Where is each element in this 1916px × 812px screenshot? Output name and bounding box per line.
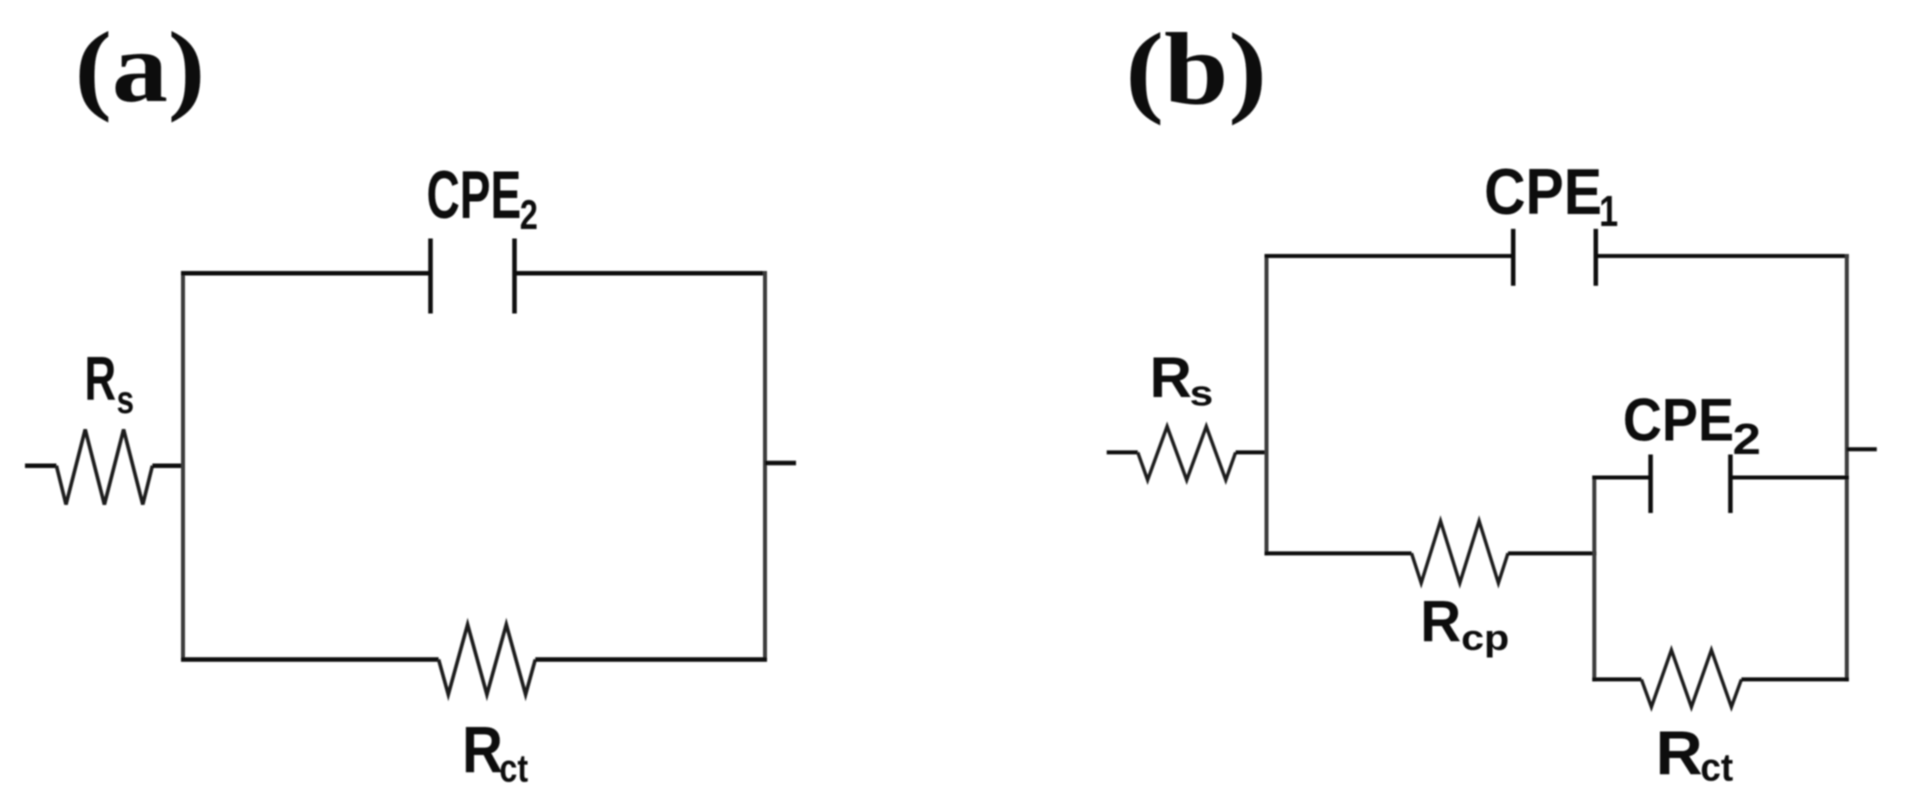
- wire: left terminal stub of circuit a: [25, 463, 56, 468]
- wire: left vertical of circuit a: [181, 271, 185, 661]
- label Rct (circuit b): [1656, 720, 1734, 790]
- resistor Rs (circuit b): [1138, 427, 1236, 481]
- wire: bottom branch left segment of circuit b: [1265, 551, 1412, 555]
- wire: inner top branch right segment (circuit b): [1730, 476, 1848, 480]
- wire: right vertical of circuit b: [1845, 254, 1849, 681]
- svg-text:s: s: [117, 379, 134, 422]
- svg-text:CPE: CPE: [427, 158, 522, 233]
- svg-text:2: 2: [1733, 415, 1761, 464]
- label CPE2 (circuit b): [1623, 387, 1761, 464]
- resistor Rct (circuit b): [1641, 650, 1741, 707]
- wire: inner top branch left segment (circuit b): [1592, 476, 1650, 480]
- wire: right vertical of circuit a: [763, 271, 767, 661]
- resistor Rcp (circuit b): [1412, 521, 1509, 583]
- label Rcp (circuit b): [1420, 589, 1509, 658]
- label Rs (circuit a): [85, 345, 135, 422]
- wire: Rs right lead to node (circuit a): [152, 463, 185, 468]
- capacitor CPE2 plates (circuit b): [1651, 455, 1731, 514]
- capacitor CPE2 plates (circuit a): [431, 239, 515, 314]
- wire: inner box left vertical (circuit b): [1592, 476, 1596, 682]
- label Rs (circuit b): [1150, 346, 1214, 413]
- wire: right terminal stub of circuit a: [765, 461, 796, 466]
- svg-text:(a): (a): [75, 11, 206, 123]
- wire: Rs right lead to node (circuit b): [1236, 450, 1269, 454]
- svg-text:CPE: CPE: [1484, 155, 1602, 228]
- svg-text:ct: ct: [499, 747, 528, 790]
- svg-text:ct: ct: [1700, 746, 1733, 789]
- resistor Rct (circuit a): [439, 625, 536, 695]
- svg-text:2: 2: [520, 192, 538, 238]
- svg-text:s: s: [1190, 372, 1214, 413]
- svg-text:R: R: [1150, 346, 1192, 410]
- svg-text:(b): (b): [1125, 12, 1267, 126]
- svg-text:R: R: [85, 345, 117, 414]
- resistor Rs (circuit a): [56, 430, 152, 505]
- wire: bottom-left segment of circuit a: [181, 657, 439, 662]
- svg-text:CPE: CPE: [1623, 387, 1734, 454]
- svg-text:R: R: [462, 713, 503, 787]
- wire: top-right segment of circuit a: [515, 271, 768, 276]
- wire: right terminal stub of circuit b: [1847, 447, 1877, 451]
- capacitor CPE1 plates (circuit b): [1513, 229, 1596, 286]
- svg-text:R: R: [1656, 720, 1703, 789]
- wire: inner bottom branch left segment (circuit b): [1592, 677, 1641, 681]
- wire: top-left segment of circuit b: [1265, 254, 1514, 258]
- wire: bottom branch right segment of circuit b: [1508, 551, 1596, 555]
- label Rct (circuit a): [462, 713, 528, 790]
- label CPE1 (circuit b): [1484, 155, 1618, 236]
- label CPE2 (circuit a): [427, 158, 538, 238]
- wire: left vertical of circuit b: [1265, 254, 1269, 555]
- wire: top-left segment of circuit a: [181, 271, 431, 276]
- wire: inner bottom branch right segment (circuit b): [1741, 677, 1848, 681]
- svg-text:1: 1: [1599, 188, 1618, 236]
- wire: bottom-right segment of circuit a: [535, 657, 767, 662]
- svg-text:cp: cp: [1461, 617, 1509, 658]
- svg-text:R: R: [1420, 589, 1461, 654]
- wire: left terminal stub of circuit b: [1107, 450, 1138, 454]
- wire: top-right segment of circuit b: [1596, 254, 1849, 258]
